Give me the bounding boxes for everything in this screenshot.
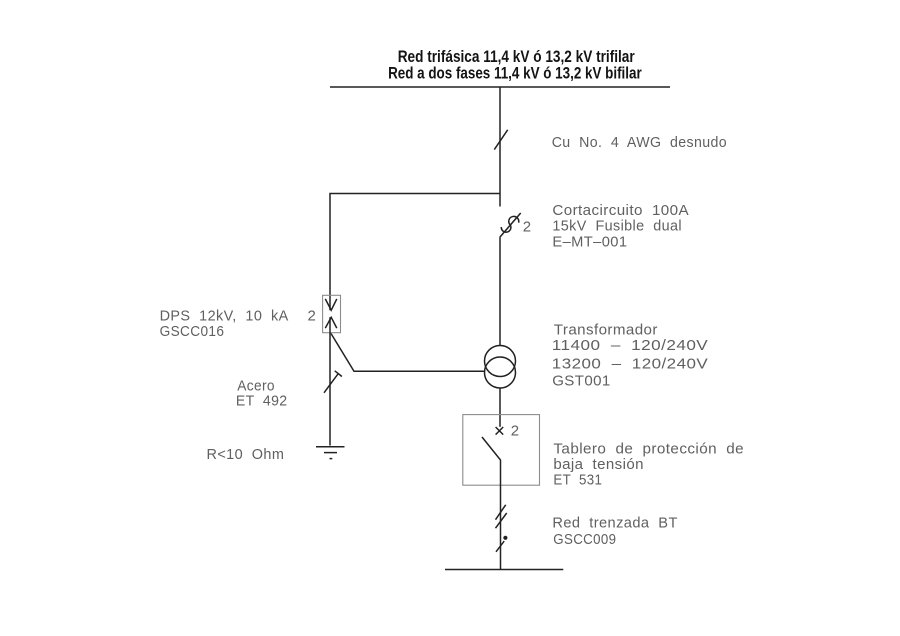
wire fuse to transformer (499, 237, 501, 346)
svg-text:Red trenzada BT: Red trenzada BT (552, 515, 677, 532)
wire main drop (499, 87, 501, 207)
svg-text:R<10 Ohm: R<10 Ohm (207, 446, 285, 463)
ground rod marker Acero (324, 374, 338, 393)
ground symbol (316, 446, 345, 448)
svg-text:Transformador: Transformador (554, 322, 658, 339)
svg-text:Red a dos fases 11,4 kV ó 13,2: Red a dos fases 11,4 kV ó 13,2 kV bifila… (388, 63, 642, 82)
LV double slash (496, 505, 506, 520)
switch blade and wire down (482, 437, 501, 570)
wire transformer to tablero (499, 388, 501, 427)
svg-text:2: 2 (511, 422, 520, 439)
breaker x symbol (496, 427, 504, 435)
MV bus (330, 86, 670, 88)
svg-text:15kV Fusible dual: 15kV Fusible dual (552, 218, 682, 235)
neutral dot (503, 536, 507, 540)
DPS arrester (323, 295, 341, 332)
neutral slash (496, 541, 504, 552)
svg-text:DPS 12kV, 10 kA: DPS 12kV, 10 kA (160, 307, 289, 324)
svg-text:Cortacircuito 100A: Cortacircuito 100A (552, 202, 689, 219)
svg-text:2: 2 (523, 219, 532, 236)
wire DPS to transformer tank (331, 334, 485, 372)
svg-text:GSCC009: GSCC009 (553, 531, 616, 548)
svg-text:ET 531: ET 531 (553, 471, 602, 488)
conductor slash (494, 130, 507, 150)
tablero box (463, 415, 540, 486)
wire DPS to ground (329, 317, 331, 445)
fuse cutout E-MT-001 (501, 216, 518, 232)
wire branch to DPS (330, 194, 500, 311)
svg-text:11400 – 120/240V: 11400 – 120/240V (552, 337, 708, 354)
svg-text:13200 – 120/240V: 13200 – 120/240V (552, 356, 708, 373)
svg-text:GSCC016: GSCC016 (160, 323, 225, 340)
svg-text:Tablero de protección de: Tablero de protección de (553, 440, 744, 457)
transformer GST001 (485, 346, 516, 377)
svg-text:ET 492: ET 492 (236, 392, 288, 409)
svg-text:Cu No. 4 AWG desnudo: Cu No. 4 AWG desnudo (552, 134, 727, 151)
svg-text:GST001: GST001 (552, 372, 611, 389)
svg-text:2: 2 (308, 307, 317, 324)
LV bus (445, 569, 563, 571)
svg-text:E–MT–001: E–MT–001 (552, 233, 627, 250)
